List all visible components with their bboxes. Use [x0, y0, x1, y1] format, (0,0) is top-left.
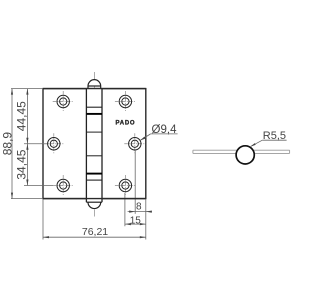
center mark hole middle-left [43, 143, 64, 145]
hinge leaf plate outline [43, 89, 146, 199]
hole bottom-right [119, 179, 131, 191]
dimension line 8 (outside arrows) [128, 211, 152, 213]
hinge knuckle barrel [86, 89, 102, 203]
dimension line 88,9 [11, 89, 13, 199]
center mark hole middle-right [124, 143, 145, 145]
extension line bottom left corner (76.21) [42, 200, 44, 240]
extension line bottom hole row (34.45) [24, 185, 53, 187]
plate bottom edge across barrel [43, 198, 146, 200]
extension line middle-right hole column (8) [134, 151, 136, 214]
extension line middle row (44.45/34.45) [24, 143, 47, 145]
svg-text:88,9: 88,9 [1, 132, 15, 156]
extension line top-left (88.9 / 44.45) [11, 88, 43, 90]
svg-text:R5,5: R5,5 [263, 130, 286, 142]
svg-text:8: 8 [136, 201, 142, 212]
extension line right edge (76.21 / 8 / 15) [145, 200, 147, 240]
screw holes (countersunk, outer + inner circles) [48, 95, 141, 191]
hole top-right [119, 95, 131, 107]
plate top edge across barrel [43, 88, 146, 90]
dimension line 44,45 [26, 89, 28, 144]
center mark hole bottom-right [115, 185, 136, 187]
hole top-left [57, 95, 69, 107]
dimension line 76,21 [43, 236, 146, 238]
extension line bottom-right hole column (15) [124, 193, 126, 226]
bearing ring line bottom (thick) [86, 173, 102, 175]
side view right leaf [254, 150, 290, 153]
knuckle joint line 4 [86, 179, 102, 181]
svg-text:34,45: 34,45 [15, 149, 29, 179]
pin bottom cap [86, 202, 102, 208]
hole middle-right [129, 138, 141, 150]
hole middle-left [48, 138, 60, 150]
center marks for holes [43, 91, 145, 196]
svg-text:76,21: 76,21 [82, 226, 108, 238]
pin cap dome [88, 80, 101, 89]
side view left leaf [193, 150, 236, 153]
knuckle joint line 1 [86, 106, 102, 108]
leader line for hole diameter label [140, 134, 177, 141]
side view knuckle circle [236, 146, 254, 164]
svg-text:44,45: 44,45 [15, 101, 29, 131]
knuckle joint line 2 [86, 131, 102, 133]
center mark hole top-left [53, 101, 74, 103]
center mark hole top-right [115, 101, 136, 103]
bearing ring line top (thick) [86, 113, 102, 115]
hole bottom-left [57, 179, 69, 191]
svg-text:15: 15 [130, 215, 142, 226]
pin centerline [94, 72, 96, 218]
knuckle joint line 3 [86, 155, 102, 157]
svg-text:Ø9,4: Ø9,4 [152, 124, 178, 136]
extension line bottom-left (88.9) [11, 198, 43, 200]
leader line for radius label R5,5 [251, 140, 287, 146]
dimension line 15 [125, 223, 146, 225]
center mark hole bottom-left [53, 185, 74, 187]
dimension line 34,45 [26, 144, 28, 186]
svg-text:PADO: PADO [116, 121, 136, 127]
